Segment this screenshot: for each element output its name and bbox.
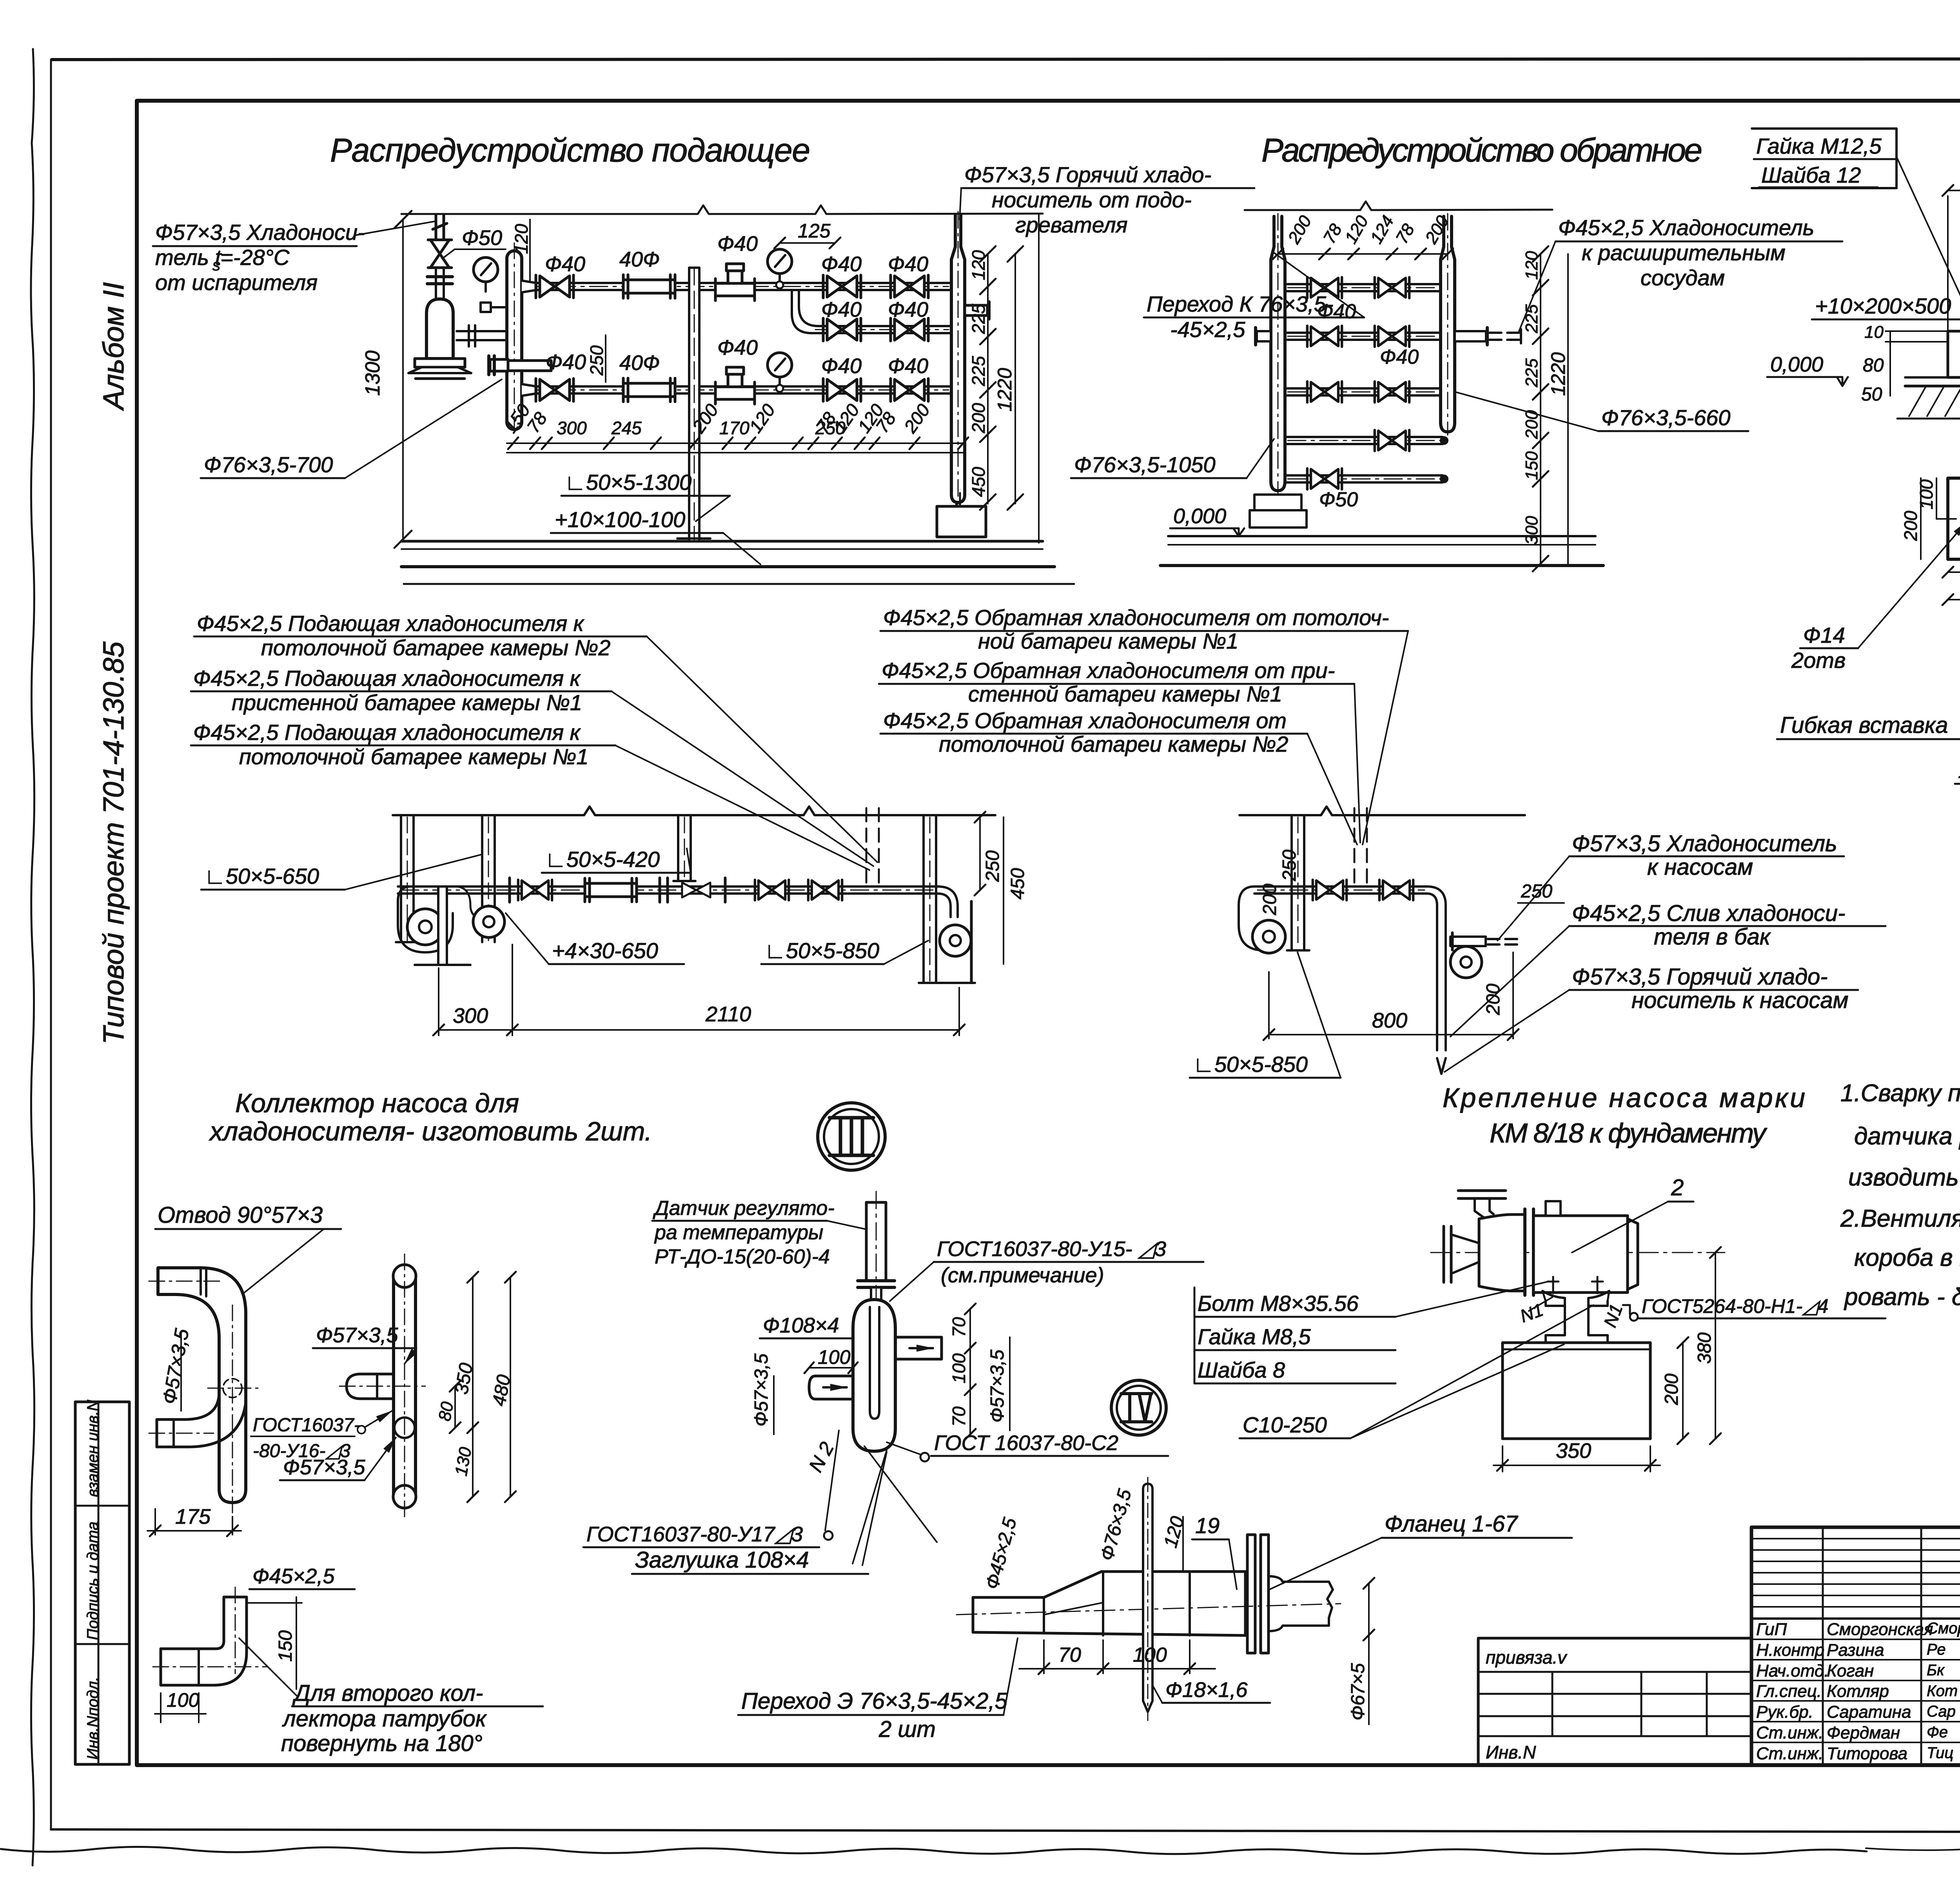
- svg-text:ГОСТ16037-80-У15- ◿3: ГОСТ16037-80-У15- ◿3: [937, 1237, 1166, 1261]
- svg-text:380: 380: [1694, 1332, 1715, 1364]
- svg-text:Ф57×3,5 Горячий хладо-: Ф57×3,5 Горячий хладо-: [1572, 964, 1828, 990]
- fittings along pipe: [508, 878, 511, 902]
- dim 150 200: [1948, 190, 1960, 191]
- svg-text:привяза.v: привяза.v: [1486, 1647, 1568, 1668]
- relief valve: [430, 240, 449, 268]
- long diagonal to заглушка: [864, 1446, 937, 1542]
- svg-text:Ф40: Ф40: [546, 350, 586, 374]
- svg-text:2: 2: [1671, 1175, 1684, 1200]
- nut/washer callout box: [1752, 129, 1896, 188]
- svg-text:ной батареи камеры №1: ной батареи камеры №1: [978, 629, 1238, 653]
- svg-text:Типовой проект 701-4-130.85: Типовой проект 701-4-130.85: [97, 641, 130, 1044]
- svg-text:Тиц: Тиц: [1927, 1744, 1953, 1762]
- svg-text:Ф57×3,5 Хладоноситель: Ф57×3,5 Хладоноситель: [1572, 831, 1837, 856]
- svg-text:к расширительным: к расширительным: [1582, 240, 1786, 265]
- svg-text:80: 80: [435, 1400, 457, 1423]
- SECTION: notes: [1840, 1080, 1960, 1311]
- svg-text:∟50×5-1300: ∟50×5-1300: [564, 470, 691, 495]
- svg-text:Распредустройство подающее: Распредустройство подающее: [330, 132, 810, 169]
- small lower-left stub: [157, 1392, 245, 1447]
- svg-text:Ф45×2,5 Обратная хладоносител: Ф45×2,5 Обратная хладоносителя от при-: [882, 658, 1335, 683]
- svg-text:170: 170: [719, 418, 750, 438]
- svg-text:120: 120: [511, 224, 532, 254]
- svg-text:2отв: 2отв: [1791, 648, 1846, 673]
- svg-text:70: 70: [949, 1406, 969, 1427]
- svg-text:лектора патрубок: лектора патрубок: [282, 1706, 487, 1731]
- svg-text:Крепление насоса марки: Крепление насоса марки: [1443, 1082, 1805, 1113]
- svg-text:Ст.инж.: Ст.инж.: [1756, 1723, 1823, 1742]
- SECTION: return distribution schematic: [1071, 201, 1842, 571]
- tee drawing B: [394, 1276, 416, 1497]
- svg-text:100: 100: [949, 1353, 969, 1383]
- svg-text:Ф45×2,5 Хладоноситель: Ф45×2,5 Хладоноситель: [1558, 215, 1814, 240]
- svg-text:2110: 2110: [705, 1002, 751, 1026]
- svg-text:225: 225: [1522, 304, 1541, 334]
- svg-text:Ф57×3,5: Ф57×3,5: [316, 1323, 399, 1347]
- pipe body: [973, 1572, 1245, 1635]
- svg-text:300: 300: [453, 1004, 488, 1028]
- tee with instrument T1: [715, 264, 755, 301]
- left stub phi76: [490, 359, 508, 371]
- valve V12: [1375, 430, 1409, 451]
- right stub to expansion vessels: [1455, 331, 1486, 341]
- svg-text:250: 250: [982, 850, 1003, 882]
- wire leader to stub: [356, 221, 434, 235]
- svg-text:250: 250: [586, 345, 607, 376]
- svg-text:Разина: Разина: [1827, 1641, 1884, 1660]
- central angle support L50x5: [689, 268, 699, 541]
- svg-text:Ф45×2,5 Подающая хладоносител: Ф45×2,5 Подающая хладоносителя к: [193, 720, 581, 745]
- rod: [866, 1202, 886, 1281]
- valve V17: [1313, 880, 1347, 900]
- svg-text:225: 225: [1522, 358, 1541, 388]
- flanged spool 40F-1: [623, 275, 675, 298]
- svg-text:2 шт: 2 шт: [878, 1717, 936, 1742]
- svg-text:потолочной батареи камеры №2: потолочной батареи камеры №2: [939, 732, 1288, 756]
- svg-text:Ф57×3,5: Ф57×3,5: [987, 1349, 1008, 1423]
- svg-text:15: 15: [1958, 758, 1960, 783]
- svg-text:800: 800: [1372, 1009, 1407, 1032]
- valve V11: [1375, 381, 1409, 402]
- svg-text:Ст.инж.: Ст.инж.: [1756, 1744, 1823, 1763]
- svg-text:175: 175: [175, 1505, 211, 1528]
- valve V3: [891, 318, 928, 341]
- svg-text:Датчик регулято-: Датчик регулято-: [653, 1197, 835, 1220]
- svg-text:Ф40: Ф40: [888, 298, 928, 321]
- svg-text:250: 250: [1521, 881, 1552, 902]
- svg-text:50: 50: [1861, 384, 1882, 405]
- svg-text:ГОСТ 16037-80-С2: ГОСТ 16037-80-С2: [934, 1431, 1118, 1455]
- node IV marker: [1111, 1380, 1166, 1435]
- svg-text:Ф45×2,5 Обратная хладоносител: Ф45×2,5 Обратная хладоносителя от потоло…: [883, 605, 1389, 630]
- svg-text:тель t: тель t: [155, 245, 222, 270]
- svg-text:ГОСТ16037-80-У17◿3: ГОСТ16037-80-У17◿3: [586, 1523, 803, 1546]
- svg-text:Ф57×3,5 Хладоноси-: Ф57×3,5 Хладоноси-: [155, 220, 365, 245]
- flange pair: [1247, 1535, 1255, 1653]
- valve V8: [1307, 326, 1342, 346]
- svg-text:250: 250: [1279, 850, 1300, 881]
- gauge on collector: [474, 257, 498, 292]
- ceiling: [1240, 807, 1525, 815]
- right dim column: [1540, 254, 1541, 564]
- svg-text:к насосам: к насосам: [1647, 854, 1753, 880]
- label block left: supply pipes: [193, 611, 610, 769]
- svg-text:Ф76×3,5-660: Ф76×3,5-660: [1601, 405, 1730, 430]
- left pump bracket: [398, 886, 453, 952]
- svg-text:гревателя: гревателя: [1015, 212, 1127, 237]
- svg-text:1220: 1220: [994, 368, 1016, 412]
- svg-text:=-28°С: =-28°С: [220, 245, 290, 270]
- SECTION: detail I: [1752, 110, 1960, 673]
- svg-text:Отвод 90°57×3: Отвод 90°57×3: [158, 1202, 323, 1228]
- svg-text:Фе: Фе: [1927, 1724, 1948, 1741]
- motor: [1534, 1216, 1628, 1293]
- svg-text:Ф45×2,5 Слив хладоноси-: Ф45×2,5 Слив хладоноси-: [1572, 901, 1846, 926]
- branch rows: [1285, 284, 1443, 482]
- left parts list: [1198, 1291, 1359, 1382]
- hangers: [396, 815, 941, 983]
- svg-text:Гайка М12,5: Гайка М12,5: [1756, 134, 1882, 158]
- svg-text:Фердман: Фердман: [1827, 1723, 1900, 1742]
- svg-text:∟50×5-420: ∟50×5-420: [545, 847, 660, 872]
- svg-text:С10-250: С10-250: [1243, 1412, 1327, 1437]
- svg-text:Для второго кол-: Для второго кол-: [292, 1680, 483, 1706]
- svg-text:Коллектор насоса для: Коллектор насоса для: [235, 1088, 519, 1118]
- dimension 1300 left: [402, 219, 404, 539]
- svg-text:-45×2,5: -45×2,5: [1170, 317, 1245, 342]
- dim 120 top left of collector: [529, 219, 531, 281]
- svg-text:78: 78: [1319, 221, 1346, 247]
- svg-text:Рук.бр.: Рук.бр.: [1756, 1702, 1813, 1722]
- pump centerline: [1431, 1252, 1725, 1253]
- svg-text:КМ 8/18 к фундаменту: КМ 8/18 к фундаменту: [1490, 1118, 1768, 1148]
- valve V16: [808, 880, 842, 900]
- svg-text:Переход Э 76×3,5-45×2,5: Переход Э 76×3,5-45×2,5: [741, 1688, 1007, 1714]
- svg-text:Ф40: Ф40: [821, 354, 862, 378]
- right collector: [1441, 216, 1455, 432]
- left collector pipe: [507, 251, 522, 430]
- hanger: [1287, 815, 1309, 950]
- svg-text:200: 200: [1483, 984, 1504, 1015]
- svg-text:Ф40: Ф40: [1380, 346, 1419, 368]
- ceiling line: [1245, 201, 1552, 210]
- right dimension column: [987, 254, 989, 504]
- svg-text:Ф57×3,5 Горячий хладо-: Ф57×3,5 Горячий хладо-: [964, 162, 1211, 187]
- ceiling line: [401, 205, 1043, 214]
- svg-text:Инв.N: Инв.N: [1486, 1742, 1536, 1762]
- svg-text:+10×200×500: +10×200×500: [1815, 294, 1951, 318]
- svg-text:125: 125: [798, 220, 831, 242]
- svg-text:ГиП: ГиП: [1756, 1620, 1787, 1639]
- svg-text:Ф76×3,5-700: Ф76×3,5-700: [204, 452, 333, 477]
- ceiling: [393, 807, 995, 815]
- SECTION: detail II: [1777, 624, 1960, 1042]
- svg-text:Ф40: Ф40: [545, 252, 585, 276]
- components lower branch: [536, 379, 573, 401]
- svg-text:Болт М8×35.56: Болт М8×35.56: [1198, 1291, 1359, 1316]
- svg-text:450: 450: [1007, 868, 1028, 899]
- svg-text:40Ф: 40Ф: [619, 248, 660, 271]
- svg-text:ровать - δ=100мм: ровать - δ=100мм: [1844, 1283, 1960, 1311]
- svg-text:200: 200: [1284, 212, 1316, 247]
- svg-text:от испарителя: от испарителя: [155, 270, 318, 295]
- risers dashed (to batteries): [866, 808, 879, 886]
- SECTION: reducer drawing: [738, 1477, 1572, 1742]
- svg-text:Титорова: Титорова: [1827, 1744, 1907, 1763]
- svg-text:200: 200: [1259, 884, 1280, 915]
- lower branch pipe: [522, 384, 951, 396]
- label block right: return pipes: [882, 605, 1389, 756]
- relief valve stub pipe: [433, 215, 447, 240]
- pot body: [853, 1300, 895, 1451]
- svg-text:датчика регулятора температу: датчика регулятора температуры про-: [1854, 1123, 1960, 1150]
- right end elbow down to bracket: [938, 886, 958, 917]
- callout phi57 evaporator: [155, 220, 365, 295]
- dim 250 rotated near lower spool: [605, 335, 606, 382]
- svg-text:1220: 1220: [1547, 352, 1569, 396]
- elbow drawing A: [158, 1268, 246, 1503]
- vessel (separator pot): [426, 299, 453, 359]
- pedestal rail: [1543, 1291, 1609, 1306]
- svg-text:300: 300: [557, 418, 587, 438]
- svg-text:40Ф: 40Ф: [619, 351, 660, 375]
- dims: [1502, 1446, 1503, 1472]
- SECTION: left margin: [75, 282, 130, 1764]
- right stub flange on collector: [508, 361, 551, 371]
- main pipe: [1254, 886, 1427, 894]
- svg-text:Ф57×3,5: Ф57×3,5: [751, 1353, 772, 1427]
- svg-text:Ф67×5: Ф67×5: [1348, 1663, 1368, 1720]
- svg-text:150: 150: [1522, 451, 1541, 480]
- svg-text:Ф108×4: Ф108×4: [763, 1314, 839, 1337]
- suction flange & bell: [1443, 1226, 1445, 1282]
- main pipe: [398, 886, 938, 894]
- dims right 250 450: [979, 817, 981, 890]
- svg-text:70: 70: [1058, 1644, 1081, 1666]
- svg-text:100: 100: [167, 1689, 200, 1711]
- floor lines: [401, 540, 1043, 543]
- inner well: [870, 1307, 879, 1419]
- svg-text:Кот: Кот: [1927, 1682, 1958, 1700]
- svg-text:РТ-ДО-15(20-60)-4: РТ-ДО-15(20-60)-4: [655, 1245, 830, 1268]
- left collector: [1271, 216, 1285, 491]
- svg-text:120: 120: [968, 250, 989, 280]
- support block under right collector: [937, 506, 986, 537]
- svg-text:Ф50: Ф50: [1319, 488, 1358, 511]
- valve V2: [891, 275, 928, 298]
- leader + note: [239, 1638, 298, 1697]
- svg-text:Ре: Ре: [1927, 1641, 1945, 1658]
- svg-text:100: 100: [1133, 1644, 1167, 1666]
- svg-text:1300: 1300: [361, 350, 384, 396]
- svg-text:2.Вентилятор, гибкие вставки: 2.Вентилятор, гибкие вставки и вент-: [1840, 1205, 1960, 1232]
- svg-text:120: 120: [1522, 251, 1541, 280]
- pressure gauge PI1: [768, 249, 792, 283]
- SECTION: supply distribution schematic: [153, 162, 1254, 584]
- flanged spool 40F-3: [585, 878, 637, 902]
- support block: [1254, 495, 1301, 510]
- valve V18: [1379, 880, 1413, 900]
- svg-text:потолочной батарее камеры №2: потолочной батарее камеры №2: [261, 635, 610, 660]
- svg-text:80: 80: [1863, 355, 1884, 376]
- right collector stub: [965, 305, 987, 315]
- SECTION: return collector (middle right): [879, 605, 1886, 1078]
- svg-text:Ф40: Ф40: [717, 232, 758, 256]
- wooden beam: [1948, 331, 1960, 377]
- svg-text:+10×100-100: +10×100-100: [555, 507, 685, 532]
- svg-text:120: 120: [1341, 212, 1372, 247]
- svg-text:ра температуры: ра температуры: [654, 1221, 823, 1244]
- SECTION: titleblock: [1478, 1527, 1960, 1834]
- svg-text:Саратина: Саратина: [1827, 1702, 1911, 1722]
- svg-text:Ф14: Ф14: [1803, 623, 1845, 647]
- SECTION: sensor pot assembly: [583, 1191, 1203, 1574]
- svg-text:100: 100: [1916, 479, 1936, 509]
- svg-text:стенной батареи камеры №1: стенной батареи камеры №1: [968, 682, 1282, 706]
- svg-text:ГОСТ16037-: ГОСТ16037-: [253, 1415, 360, 1436]
- svg-text:короба в машинном отделении: короба в машинном отделении изоли-: [1854, 1244, 1960, 1271]
- node III marker: [818, 1103, 885, 1170]
- base plate: [1905, 376, 1960, 379]
- svg-text:взамен инв.N: взамен инв.N: [84, 1400, 102, 1497]
- valve V7: [1375, 277, 1409, 298]
- svg-text:Альбом II: Альбом II: [97, 282, 130, 411]
- riser dashed: [1354, 808, 1367, 884]
- svg-text:Ф40: Ф40: [821, 252, 862, 276]
- valve V9: [1375, 326, 1409, 346]
- svg-text:0,000: 0,000: [1770, 353, 1823, 376]
- svg-text:450: 450: [968, 467, 989, 497]
- svg-text:изводить при снятом термоба: изводить при снятом термобаллоне.: [1848, 1164, 1960, 1191]
- svg-text:+4×30-650: +4×30-650: [552, 938, 658, 963]
- svg-text:Ф40: Ф40: [888, 252, 928, 276]
- svg-text:хладоносителя- изготовить 2шт.: хладоносителя- изготовить 2шт.: [209, 1117, 652, 1146]
- svg-text:120: 120: [745, 400, 779, 437]
- svg-text:Ф57×3,5: Ф57×3,5: [158, 1327, 193, 1406]
- svg-text:Переход К 76×3,5-: Переход К 76×3,5-: [1147, 292, 1334, 316]
- right elbow down, stub right, drop pipe: [1427, 886, 1446, 1050]
- svg-text:Гайка М8,5: Гайка М8,5: [1198, 1324, 1311, 1349]
- plan dims: [1920, 478, 1922, 559]
- svg-text:225: 225: [968, 356, 989, 386]
- svg-text:Фланец 1-67: Фланец 1-67: [1385, 1511, 1519, 1537]
- svg-text:теля в бак: теля в бак: [1654, 924, 1771, 950]
- svg-text:Н.контр: Н.контр: [1756, 1641, 1824, 1660]
- svg-text:350: 350: [1556, 1439, 1591, 1463]
- pipe after flange: [1269, 1576, 1333, 1631]
- valve V15: [755, 880, 789, 900]
- valve V10: [1307, 381, 1342, 402]
- valve V1: [823, 275, 861, 298]
- svg-text:ГОСТ5264-80-Н1-◿4: ГОСТ5264-80-Н1-◿4: [1642, 1295, 1828, 1317]
- SECTION: pump mounting: [1194, 1082, 1886, 1472]
- dims: [1269, 1034, 1513, 1035]
- svg-text:1.Сварку присоединительного: 1.Сварку присоединительного патрубка: [1840, 1080, 1960, 1107]
- svg-text:(см.примечание): (см.примечание): [941, 1264, 1104, 1287]
- top small dims: [1278, 253, 1448, 255]
- svg-text:Подпись и дата: Подпись и дата: [84, 1521, 102, 1640]
- tee with instrument T2: [715, 367, 755, 404]
- svg-text:Сморгонская: Сморгонская: [1827, 1620, 1933, 1639]
- svg-text:120: 120: [1160, 1514, 1188, 1550]
- floor: [1168, 535, 1595, 537]
- svg-text:Шайба 8: Шайба 8: [1198, 1358, 1285, 1382]
- valve V4: [823, 379, 861, 401]
- svg-text:Ф50: Ф50: [462, 226, 502, 250]
- svg-text:200: 200: [1900, 511, 1921, 541]
- components bypass: [823, 318, 861, 341]
- svg-text:пристенной батарее камеры №1: пристенной батарее камеры №1: [232, 690, 582, 715]
- svg-text:300: 300: [1522, 516, 1541, 545]
- svg-text:10: 10: [1864, 323, 1884, 342]
- svg-text:Ф40: Ф40: [888, 354, 928, 378]
- top inlet: [1458, 1189, 1506, 1192]
- svg-text:носитель к насосам: носитель к насосам: [1632, 988, 1848, 1013]
- svg-text:100: 100: [818, 1346, 851, 1368]
- svg-text:Ф45×2,5 Подающая хладоносител: Ф45×2,5 Подающая хладоносителя к: [193, 666, 581, 691]
- svg-text:Нач.отд.: Нач.отд.: [1756, 1661, 1829, 1680]
- svg-text:потолочной батарее камеры №1: потолочной батарее камеры №1: [239, 744, 588, 769]
- svg-text:∟50×5-850: ∟50×5-850: [764, 938, 879, 963]
- svg-text:Ф45×2,5 Подающая хладоносител: Ф45×2,5 Подающая хладоносителя к: [197, 611, 585, 636]
- leaders converging to risers: [647, 636, 877, 862]
- svg-text:Котляр: Котляр: [1827, 1682, 1889, 1701]
- SECTION: supply collector (middle left): [191, 611, 1028, 1035]
- svg-text:Ф76×3,5: Ф76×3,5: [1096, 1487, 1135, 1563]
- svg-text:Бк: Бк: [1927, 1662, 1945, 1679]
- svg-text:носитель от подо-: носитель от подо-: [992, 187, 1192, 212]
- right stub: [895, 1337, 942, 1359]
- dim 125 at gauge: [780, 242, 835, 244]
- pump casing: [1479, 1215, 1525, 1291]
- right collector with cone top: [951, 215, 965, 502]
- valve V14: [518, 880, 552, 900]
- svg-text:Ф18×1,6: Ф18×1,6: [1165, 1678, 1248, 1702]
- svg-text:Ф76×3,5-1050: Ф76×3,5-1050: [1074, 452, 1216, 477]
- svg-text:Гибкая вставка: Гибкая вставка: [1780, 712, 1948, 738]
- svg-text:225: 225: [968, 304, 989, 334]
- dims: [1043, 1640, 1045, 1673]
- plan view plate: [1948, 478, 1960, 559]
- svg-text:∟50×5-650: ∟50×5-650: [204, 864, 319, 888]
- svg-text:Ф57×3,5: Ф57×3,5: [283, 1456, 366, 1479]
- left stub: [809, 1376, 853, 1399]
- thermowell rod: [1143, 1484, 1152, 1712]
- svg-text:Ф40: Ф40: [717, 336, 758, 359]
- SECTION: bottom-left collector parts: [147, 1088, 885, 1756]
- svg-text:124: 124: [1367, 212, 1397, 247]
- svg-text:Ф45×2,5: Ф45×2,5: [982, 1515, 1020, 1592]
- flange pair: [427, 275, 452, 278]
- dims bottom: [439, 1029, 959, 1031]
- Г pipe drawing C: [161, 1597, 247, 1685]
- bottom dimension lines: [507, 442, 964, 444]
- svg-text:Ф40: Ф40: [821, 298, 862, 321]
- svg-text:Ф45×2,5: Ф45×2,5: [252, 1564, 335, 1588]
- svg-text:Заглушка 108×4: Заглушка 108×4: [635, 1547, 809, 1573]
- svg-text:∟50×5-850: ∟50×5-850: [1193, 1052, 1308, 1077]
- components upper branch: [536, 275, 573, 298]
- pressure gauge PI2: [768, 353, 792, 387]
- flanged spool 40F-2: [623, 378, 675, 402]
- svg-text:150: 150: [275, 1630, 296, 1662]
- bolts: [1548, 1277, 1603, 1293]
- valve V5: [891, 379, 928, 401]
- svg-text:70: 70: [949, 1317, 969, 1337]
- foundation: [1503, 1343, 1650, 1439]
- svg-text:повернуть на 180°: повернуть на 180°: [281, 1731, 483, 1756]
- svg-text:Распредустройство обратное: Распредустройство обратное: [1261, 132, 1702, 169]
